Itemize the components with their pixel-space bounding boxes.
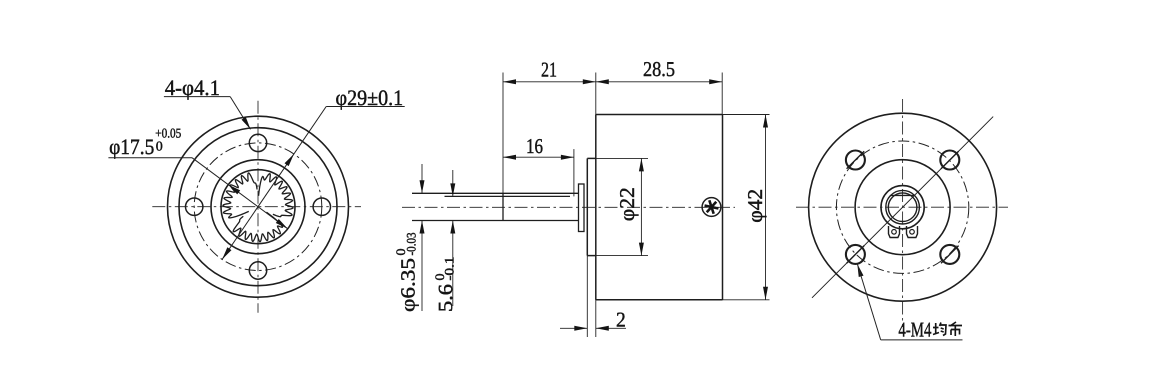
- dimension text phi6.35: [398, 258, 420, 312]
- rear view screw bolt circle (dash-dot): [836, 141, 968, 273]
- svg-text:21: 21: [541, 58, 557, 82]
- label phi17.5 tolerance 0: [156, 138, 163, 153]
- rear view end-cap circle: [855, 160, 950, 255]
- front view mounting hole phi4.1 left: [186, 198, 203, 215]
- planet gear teeth upper-left: [223, 173, 257, 218]
- front view opening circle phi17.5: [221, 170, 295, 244]
- dim arrows phi22: [639, 158, 644, 255]
- assembly screw head on body: [702, 198, 721, 217]
- leader arrow 4-phi4.1: [242, 117, 251, 129]
- flange plate top edge: [587, 157, 596, 159]
- side view horizontal centerline: [402, 206, 735, 208]
- shaft tip end face: [502, 193, 504, 220]
- dim phi6.35 upper line: [420, 164, 425, 193]
- dim 5.6 tol 0: [432, 274, 447, 281]
- leader line 4-M4: [857, 264, 880, 340]
- svg-text:16: 16: [526, 134, 543, 158]
- svg-text:4-M4: 4-M4: [898, 318, 931, 342]
- leader arrow 4-M4: [857, 264, 863, 277]
- leader arrow phi29 lower: [222, 247, 231, 259]
- leader underline 4-phi4.1: [164, 96, 230, 98]
- rear screw M4 top-right: [940, 151, 959, 170]
- dim arrows 21: [503, 79, 596, 84]
- front view mounting hole phi4.1 bottom: [249, 262, 266, 279]
- planet gear teeth upper-right: [259, 174, 293, 217]
- dim 5.6 lower line: [450, 221, 455, 307]
- svg-text:5.6: 5.6: [435, 284, 457, 312]
- leader underline 4-M4: [881, 339, 963, 341]
- dimension line phi42: [765, 115, 767, 300]
- shaft flat line with extension: [445, 195, 571, 197]
- motor body rear face: [722, 115, 724, 300]
- dimension text 5.6: [435, 284, 457, 312]
- extension line 16 right: [573, 149, 575, 196]
- extension line 2 right: [595, 256, 597, 337]
- dim phi6.35 tol -0.03: [404, 233, 419, 256]
- dimension text 21: [541, 58, 557, 82]
- rear bushing middle circle: [886, 190, 920, 224]
- svg-text:0: 0: [156, 138, 163, 153]
- rear view diagonal centerline 45deg: [812, 117, 993, 298]
- dimension line 21: [503, 81, 596, 83]
- shaft top line with extension: [412, 192, 579, 194]
- dim 5.6 tol -0.1: [442, 257, 457, 281]
- dimension line 2 right: [596, 326, 626, 331]
- rear view vertical centerline: [902, 99, 904, 327]
- dimension text 16: [526, 134, 543, 158]
- planet gear teeth bottom: [233, 212, 282, 242]
- dim arrows 28.5: [596, 79, 722, 84]
- extension line at shaft tip (21/16 dims): [502, 73, 504, 194]
- front view mounting hole phi4.1 right: [313, 198, 330, 215]
- extension line body front top: [595, 73, 597, 115]
- dimension text 2: [616, 308, 626, 332]
- rear bushing outer circle: [881, 186, 924, 229]
- leader underline phi17.5: [108, 157, 192, 159]
- label 4-phi4.1: [165, 75, 220, 100]
- bearing hub rectangle: [579, 184, 585, 232]
- rear screw M4 top-left: [846, 151, 865, 170]
- front view gearbox body circle: [179, 128, 337, 286]
- extension line body rear top: [721, 73, 723, 115]
- rear screw M4 bottom-left: [846, 245, 865, 264]
- leader underline phi29: [326, 106, 405, 108]
- svg-text:φ6.35: φ6.35: [398, 258, 420, 312]
- rear screw M4 bottom-right: [940, 245, 959, 264]
- dim 5.6 upper line: [450, 170, 455, 196]
- motor body front face: [595, 115, 597, 300]
- dim phi6.35 lower line: [420, 221, 425, 312]
- svg-text:-0.1: -0.1: [442, 257, 457, 281]
- rear view outer circle phi42: [809, 113, 997, 301]
- rear bushing inner circle: [888, 193, 917, 222]
- extension line phi22 bottom: [596, 255, 648, 257]
- label phi17.5: [109, 134, 154, 159]
- dimension line 28.5: [596, 81, 722, 83]
- svg-text:φ17.5: φ17.5: [109, 134, 154, 159]
- flange plate front face: [586, 158, 588, 255]
- front view pilot circle phi22: [211, 160, 305, 254]
- label bu (CJK): [949, 322, 963, 336]
- motor terminal left: [889, 226, 900, 238]
- shaft bottom line with extension: [412, 220, 579, 222]
- extension line phi42 top: [723, 114, 770, 116]
- dim arrows phi42: [763, 115, 768, 300]
- label phi17.5 tolerance +0.05: [155, 126, 181, 141]
- dimension text phi42: [743, 189, 767, 223]
- extension line 2 left: [586, 256, 588, 337]
- label 4-M4: [898, 318, 931, 342]
- label jun (CJK): [933, 323, 946, 336]
- leader diameter line phi17.5: [192, 158, 288, 229]
- svg-text:-0.03: -0.03: [404, 233, 419, 256]
- svg-text:28.5: 28.5: [643, 57, 675, 81]
- rear view horizontal centerline: [796, 206, 1008, 208]
- front view bolt circle phi29 (dash-dot): [194, 143, 322, 271]
- front view horizontal centerline: [152, 206, 361, 208]
- motor body bottom edge: [596, 299, 723, 301]
- dimension line 2 left: [560, 326, 587, 331]
- dimension text 28.5: [643, 57, 675, 81]
- leader line 4-phi4.1: [230, 97, 250, 130]
- front view mounting hole phi4.1 top: [249, 134, 266, 151]
- dimension text phi22: [615, 187, 639, 221]
- svg-text:φ22: φ22: [615, 187, 639, 221]
- dimension line phi22: [640, 158, 642, 255]
- extension line phi22 top: [596, 157, 648, 159]
- motor terminal right: [907, 226, 918, 238]
- leader diameter line phi29: [222, 107, 326, 260]
- dimension line 16: [503, 156, 574, 158]
- extension line phi42 bottom: [723, 299, 770, 301]
- motor body top edge: [596, 114, 723, 116]
- svg-text:φ42: φ42: [743, 189, 767, 223]
- leader arrow phi29 upper: [285, 154, 294, 166]
- leader arrow phi17.5 upper: [228, 185, 240, 195]
- front view outer flange circle phi42: [168, 116, 349, 297]
- leader arrow phi17.5 lower: [276, 219, 288, 229]
- svg-text:2: 2: [616, 308, 626, 332]
- rear bushing flat chord: [891, 194, 915, 196]
- dim phi6.35 tol 0: [393, 249, 408, 256]
- flange plate bottom edge: [587, 255, 596, 257]
- dim arrows 16: [503, 155, 574, 160]
- label phi29: [336, 85, 404, 110]
- front view vertical centerline: [257, 101, 259, 313]
